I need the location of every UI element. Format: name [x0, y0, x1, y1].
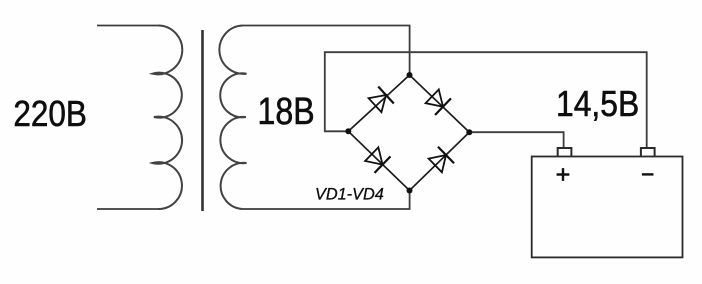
wire secondary top lead to bridge AC node [243, 26, 410, 76]
battery GB1 body [532, 157, 683, 258]
transformer T1 secondary winding [219, 26, 246, 210]
transformer T1 core [201, 30, 204, 211]
svg-text:18В: 18В [258, 91, 315, 133]
battery minus sign [642, 173, 654, 175]
diode VD4 (bottom-right arm, pointing to right corner) [427, 147, 454, 174]
wire bridge minus output: left corner to top rail to battery minus [325, 52, 647, 148]
wire primary bottom lead [97, 208, 158, 210]
junction node bottom AC [407, 188, 413, 194]
label 18V secondary voltage [258, 91, 315, 133]
battery plus terminal post [558, 148, 572, 157]
svg-text:220В: 220В [13, 94, 87, 134]
diode VD1 (top-left arm, pointing to top corner) [367, 87, 394, 114]
wire primary top lead [97, 25, 158, 27]
wire bridge plus output: right corner to battery plus [469, 132, 563, 148]
transformer T1 primary winding [153, 26, 183, 210]
junction node right plus [466, 129, 472, 135]
svg-text:14,5В: 14,5В [556, 84, 639, 124]
junction node top AC [407, 72, 413, 78]
diode VD3 (bottom-left arm, pointing to bottom corner) [364, 146, 391, 173]
bridge rectifier diamond [348, 75, 469, 191]
junction node left minus [345, 128, 351, 134]
label 14,5V battery voltage [556, 84, 639, 124]
wire secondary bottom lead to bridge AC node [243, 191, 410, 210]
svg-text:VD1-VD4: VD1-VD4 [315, 185, 384, 203]
battery minus terminal post [641, 148, 655, 157]
diode VD2 (top-right arm, pointing to right corner) [424, 88, 451, 115]
label 220V primary voltage [13, 94, 87, 134]
battery plus sign [557, 168, 570, 181]
